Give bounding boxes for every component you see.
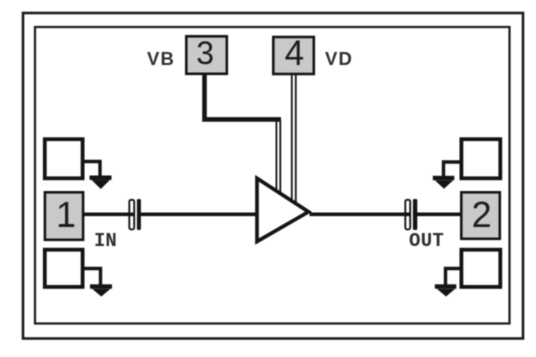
svg-text:2: 2 — [472, 194, 492, 235]
svg-text:VD: VD — [325, 48, 353, 69]
svg-text:3: 3 — [196, 35, 214, 71]
svg-text:4: 4 — [285, 34, 304, 73]
svg-text:IN: IN — [94, 230, 117, 252]
svg-text:1: 1 — [56, 194, 76, 235]
svg-text:OUT: OUT — [409, 230, 444, 252]
svg-text:VB: VB — [147, 48, 175, 69]
